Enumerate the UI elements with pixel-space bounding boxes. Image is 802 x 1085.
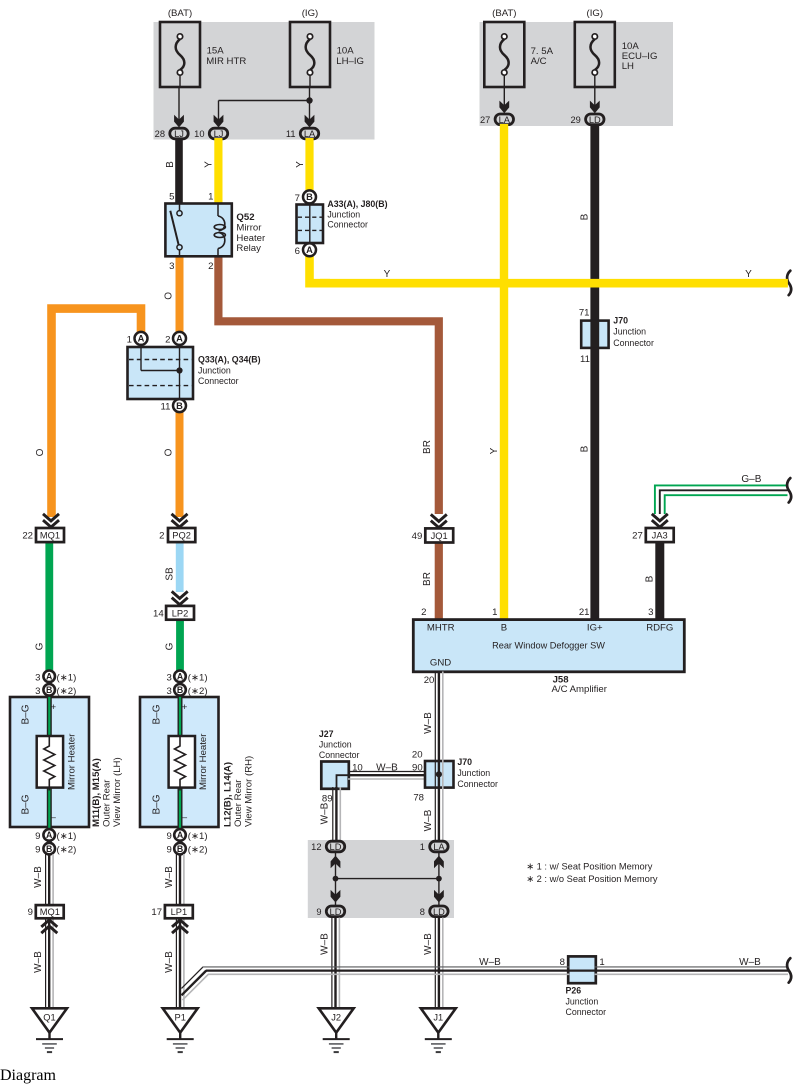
svg-text:B: B [165,161,176,168]
svg-text:78: 78 [413,793,424,804]
svg-text:∗ 2 : w/o Seat Position Memory: ∗ 2 : w/o Seat Position Memory [526,874,658,884]
B-G wire upper [47,680,52,736]
resistor heater element [169,736,195,788]
svg-text:O: O [164,292,175,300]
W-B wire J27 to J70 horizontal [348,762,425,779]
connector 9 LD [316,906,344,917]
svg-text:LA: LA [304,129,316,139]
svg-text:G: G [165,642,176,650]
P26 junction connector box [568,956,596,983]
svg-text:W–B: W–B [33,951,44,973]
wire B black: 29LD to J58 pin 21 IG+ [590,124,599,620]
svg-text:Connector: Connector [613,338,654,348]
svg-text:Y: Y [745,269,752,280]
svg-text:J70: J70 [613,315,628,325]
svg-text:Connector: Connector [327,220,368,230]
svg-text:SB: SB [165,567,176,581]
svg-text:2: 2 [159,531,164,542]
svg-text:LJ: LJ [174,129,184,139]
svg-text:9: 9 [316,907,321,917]
svg-text:2: 2 [421,607,426,618]
gray fuse panel left [154,22,375,140]
svg-text:10: 10 [194,129,204,139]
svg-text:Q33(A), Q34(B): Q33(A), Q34(B) [198,354,261,364]
svg-text:B: B [501,623,507,634]
svg-text:LP2: LP2 [172,608,189,618]
svg-text:11: 11 [580,354,590,365]
svg-text:O: O [163,448,174,456]
svg-text:21: 21 [579,607,590,618]
svg-text:1: 1 [127,334,132,345]
svg-text:7: 7 [295,193,300,204]
svg-text:9: 9 [35,831,40,842]
B-G wire lower [178,788,183,852]
svg-text:LD: LD [589,115,601,125]
svg-text:2: 2 [165,334,170,345]
svg-text:BR: BR [422,440,433,454]
pin circles top: 3A 3B [174,671,186,683]
svg-text:Outer Rear: Outer Rear [102,779,113,827]
resistor heater element [37,736,63,788]
svg-text:B: B [177,685,183,695]
svg-text:Connector: Connector [319,750,360,760]
svg-text:1: 1 [208,192,213,203]
svg-text:LD: LD [433,907,445,917]
svg-text:3: 3 [166,672,171,683]
svg-text:–: – [182,812,188,823]
connector 27 LA [480,114,514,125]
svg-text:W–B: W–B [423,712,434,734]
svg-text:20: 20 [424,675,435,686]
svg-text:(∗1): (∗1) [57,831,77,842]
break symbol bottom W-B wire [787,958,791,982]
svg-text:W–B: W–B [423,809,434,831]
svg-text:8: 8 [420,907,425,917]
svg-text:P1: P1 [175,1012,186,1022]
svg-text:12: 12 [311,842,321,852]
svg-text:P26: P26 [566,986,582,996]
svg-text:+: + [51,702,57,713]
svg-text:Y: Y [384,269,391,280]
svg-text:49: 49 [412,531,423,542]
svg-text:90: 90 [412,763,423,774]
svg-text:Connector: Connector [457,779,498,789]
wire Y yellow: 10LJ to relay pin 1 [214,138,222,204]
svg-text:A: A [177,672,184,682]
B-G wire lower [47,788,52,852]
svg-text:A: A [46,830,53,840]
wire Y yellow: A33 pin A down to corner [310,255,331,283]
svg-text:B: B [580,445,591,452]
svg-text:G–B: G–B [741,474,761,485]
svg-text:BR: BR [422,572,433,586]
svg-text:B: B [306,192,313,202]
svg-text:A33(A), J80(B): A33(A), J80(B) [327,199,387,209]
junction dot [306,97,312,103]
svg-text:View Mirror (LH): View Mirror (LH) [112,757,123,827]
svg-text:14: 14 [153,608,164,619]
B-G wire upper [178,680,183,736]
svg-text:22: 22 [22,531,33,542]
svg-text:∗ 1 : w/ Seat Position Memory: ∗ 1 : w/ Seat Position Memory [526,862,652,872]
pin 2A circle [173,332,186,345]
svg-text:1: 1 [420,842,425,852]
svg-text:B–G: B–G [152,794,163,814]
switch contact [170,204,182,256]
svg-text:Mirror Heater: Mirror Heater [198,733,209,790]
ground J1 [421,1008,456,1052]
svg-text:Rear Window Defogger SW: Rear Window Defogger SW [492,641,605,651]
svg-text:B: B [580,213,591,220]
svg-text:9: 9 [166,831,171,842]
svg-text:Y: Y [203,161,214,168]
gray shield box bottom [308,840,454,918]
break symbol yellow wire right [787,271,791,295]
svg-text:LH–IG: LH–IG [336,56,364,67]
connector 11 LA [286,128,319,139]
svg-text:–: – [51,812,57,823]
connector 10 LJ [194,128,228,139]
internal wire L-path [337,775,349,789]
wire B black: 28LJ to relay pin 5 [175,138,183,204]
svg-text:B–G: B–G [20,794,31,814]
svg-text:W–B: W–B [423,933,434,955]
connector 9 MQ1 [28,905,64,933]
svg-text:27: 27 [632,531,643,542]
wire G green: MQ1 to mirror heater LH pin 3A [45,542,53,672]
svg-text:Junction: Junction [319,740,352,750]
svg-text:B: B [177,844,183,854]
svg-text:MHTR: MHTR [427,623,455,634]
internal wiring [140,347,142,371]
svg-text:B: B [46,685,52,695]
svg-text:W–B: W–B [164,866,175,888]
pin circles top: 3A 3B [43,671,55,683]
svg-text:W–B: W–B [376,762,398,773]
svg-text:89: 89 [322,793,333,804]
svg-text:11: 11 [161,402,171,413]
svg-text:LH: LH [622,61,634,72]
svg-text:W–B: W–B [33,866,44,888]
svg-text:MQ1: MQ1 [40,907,60,917]
pin A circle [303,243,316,256]
connector 28 LJ [155,128,189,139]
wire O orange: relay pin 3 to Q33 pin 2A [176,256,184,333]
svg-text:5: 5 [169,192,174,203]
relay coil [214,204,225,256]
wire BR brown: relay pin 2 down, right, down to 49JQ1 [218,256,438,514]
svg-text:J2: J2 [331,1012,341,1022]
svg-text:Y: Y [295,161,306,168]
svg-text:6: 6 [295,246,300,257]
svg-text:W–B: W–B [320,802,331,824]
svg-text:8: 8 [560,957,565,968]
svg-text:3: 3 [35,686,40,697]
gray fuse panel right [480,22,674,126]
ground P1 [163,1008,198,1052]
svg-text:(∗2): (∗2) [57,845,77,856]
svg-text:(IG): (IG) [587,8,604,19]
svg-text:LA: LA [433,842,445,852]
svg-text:W–B: W–B [479,957,501,968]
internal links with arrows [331,853,444,905]
svg-text:MQ1: MQ1 [40,531,60,541]
svg-text:2: 2 [208,261,213,272]
svg-text:+: + [182,702,188,713]
svg-text:(BAT): (BAT) [492,8,516,19]
ground Q1 [32,1008,67,1052]
wire B black: JA3 to J58 pin 3 RDFG [655,542,664,620]
svg-text:Connector: Connector [566,1007,607,1017]
svg-text:LD: LD [330,842,342,852]
break symbol G-B wire [787,478,791,502]
svg-text:71: 71 [579,308,590,319]
wire SB skyblue: PQ2 to 14LP2 [176,542,184,592]
svg-text:Outer Rear: Outer Rear [233,779,244,827]
connector 12 LD [311,841,345,852]
svg-text:B: B [176,401,183,411]
svg-text:LP1: LP1 [171,907,188,917]
svg-text:LJ: LJ [214,129,224,139]
wire O orange: Q33 pin 1A up, left, down to 22MQ1 [52,309,142,517]
junction dot J70 [436,771,442,777]
svg-text:O: O [35,448,46,456]
svg-text:LA: LA [499,115,511,125]
svg-text:Mirror Heater: Mirror Heater [67,733,78,790]
svg-text:29: 29 [570,115,580,125]
connector 8 LD [420,906,448,917]
wire fuse2 junction [309,87,311,121]
svg-text:3: 3 [166,686,171,697]
svg-text:Junction: Junction [457,768,490,778]
pin circles bottom: 9A 9B [174,829,186,841]
svg-text:3: 3 [35,672,40,683]
svg-text:JA3: JA3 [652,531,668,541]
svg-text:(BAT): (BAT) [168,8,192,19]
svg-text:(IG): (IG) [302,8,319,19]
svg-text:Q1: Q1 [43,1012,55,1022]
svg-text:Q52: Q52 [236,212,254,223]
svg-text:B: B [645,575,656,582]
wire Y yellow horizontal main run to break [320,279,788,288]
wire G-B green-black: horizontal from break to JA3 [655,485,788,514]
wire Y yellow: 27LA to J58 pin 1 B [500,124,508,620]
svg-text:PQ2: PQ2 [172,531,191,541]
wire fuse3 to 27LA [503,87,505,106]
svg-text:(∗2): (∗2) [188,686,208,697]
svg-text:GND: GND [430,658,451,669]
svg-text:9: 9 [28,907,33,918]
wire Y yellow: 11LA to A33 pin B [305,138,313,192]
svg-text:A/C Amplifier: A/C Amplifier [552,684,608,695]
svg-text:Junction: Junction [566,997,599,1007]
svg-text:A: A [306,245,313,255]
svg-text:A: A [138,334,145,344]
svg-text:W–B: W–B [739,957,761,968]
wire fuse1 to 28LJ [178,87,180,120]
svg-text:Connector: Connector [198,376,239,386]
svg-text:B: B [46,844,52,854]
svg-text:J1: J1 [433,1012,443,1022]
svg-text:B–G: B–G [152,704,163,724]
svg-text:9: 9 [35,845,40,856]
svg-text:W–B: W–B [164,951,175,973]
svg-text:W–B: W–B [320,933,331,955]
svg-text:J27: J27 [319,729,334,739]
svg-text:11: 11 [286,129,296,139]
wire BR brown: JQ1 to J58 pin 2 MHTR [435,542,443,620]
svg-text:20: 20 [412,750,423,761]
svg-text:B–G: B–G [20,704,31,724]
svg-text:(∗1): (∗1) [188,672,208,683]
svg-text:27: 27 [480,115,490,125]
svg-text:A: A [177,830,184,840]
svg-text:M11(B), M15(A): M11(B), M15(A) [91,758,102,827]
pin 11B circle [173,399,186,412]
svg-text:A: A [46,672,53,682]
pin 1A circle [135,332,148,345]
W-B wire J58 GND to J70 to 1LA [423,672,443,842]
pin B circle [303,190,316,203]
wire G green: LP2 to mirror heater RH pin 3A [176,619,184,672]
svg-text:1: 1 [492,607,497,618]
svg-text:Junction: Junction [198,365,231,375]
wire fuse4 to 29LD [594,87,596,106]
svg-text:28: 28 [155,129,165,139]
svg-text:(∗1): (∗1) [57,672,77,683]
svg-text:IG+: IG+ [587,623,603,634]
ground J2 [319,1008,354,1052]
svg-text:A/C: A/C [531,56,547,67]
W-B wire J27 pin 89 down to 12LD [320,787,341,841]
wire O orange: Q33 pin 11B down to 2PQ2 [176,410,184,517]
svg-text:Relay: Relay [236,243,261,254]
svg-text:LD: LD [330,907,342,917]
svg-text:(∗2): (∗2) [188,845,208,856]
svg-text:1: 1 [599,957,604,968]
svg-text:17: 17 [151,907,162,918]
connector 17 LP1 [151,905,192,933]
svg-text:(∗2): (∗2) [57,686,77,697]
svg-text:RDFG: RDFG [646,623,673,634]
svg-text:MIR HTR: MIR HTR [206,56,246,67]
svg-text:3: 3 [648,607,653,618]
junction dot Q33 [176,367,182,373]
connector 1 LA [420,841,448,852]
svg-text:JQ1: JQ1 [431,531,448,541]
P26 labels [566,986,607,1017]
svg-text:9: 9 [166,845,171,856]
svg-text:3: 3 [169,261,174,272]
svg-text:Junction: Junction [613,327,646,337]
svg-text:G: G [34,642,45,650]
connector 29 LD [570,114,604,125]
svg-text:A: A [176,334,183,344]
svg-text:J70: J70 [457,757,472,767]
svg-text:(∗1): (∗1) [188,831,208,842]
svg-text:View Mirror (RH): View Mirror (RH) [244,756,255,827]
svg-text:Y: Y [489,447,500,454]
diagonal branch from P1 wire [182,967,204,989]
pin circles bottom: 9A 9B [43,829,55,841]
svg-text:L12(B), L14(A): L12(B), L14(A) [223,762,234,827]
svg-text:Junction: Junction [327,209,360,219]
